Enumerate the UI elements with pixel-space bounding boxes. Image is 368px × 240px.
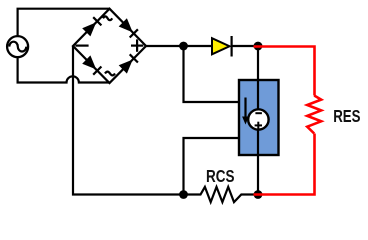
bridge rectifier diamond outline	[73, 9, 146, 83]
wire regulator bottom pin	[257, 154, 259, 195]
AC source V1	[7, 36, 28, 57]
wire inside U1 top	[257, 80, 259, 110]
wire negative rail: bridge minus down and along bottom	[73, 46, 184, 195]
wire diode cathode to node VOUT	[232, 45, 258, 47]
junction node C (RCS right / regulator bottom)	[254, 190, 263, 199]
bridge diode D2 (left to bottom)	[82, 55, 101, 74]
bridge "+" output label	[131, 39, 143, 51]
svg-text:RES: RES	[333, 106, 360, 126]
current source "+" mark	[255, 122, 262, 129]
junction node A (positive rail tap)	[179, 42, 188, 51]
bridge AC "~" label top	[103, 16, 112, 20]
wire top rail: AC source to bridge AC1 node	[18, 9, 110, 37]
bridge AC "~" label bottom	[105, 72, 115, 76]
svg-text:RCS: RCS	[206, 166, 235, 186]
resistor RES (red) with red load loop wiring	[254, 47, 315, 96]
regulator U1 body	[239, 80, 279, 155]
junction node VOUT (diode cathode / regulator top)	[254, 42, 263, 51]
wire bottom from AC source with hop over negative rail	[18, 57, 110, 83]
wire red return to node C	[254, 134, 315, 195]
bridge "-" output label	[75, 44, 88, 46]
wire regulator pin 2 to bottom rail	[184, 138, 241, 195]
wire inside U1 bottom	[257, 130, 259, 156]
current source "-" mark	[255, 112, 262, 114]
bridge diode D1 (left to top)	[82, 17, 101, 36]
junction node B (bottom rail / RCS left)	[179, 190, 188, 199]
resistor RCS	[184, 187, 255, 202]
wire positive rail: bridge plus to diode anode	[146, 45, 212, 47]
current source symbol inside U1	[248, 109, 268, 129]
wire node A down to regulator pin 1	[184, 46, 241, 102]
bridge diode D4 (bottom to right)	[119, 54, 138, 73]
wire regulator top pin	[257, 46, 259, 81]
diode D5	[212, 36, 232, 57]
bridge diode D3 (top to right)	[119, 18, 138, 37]
current direction arrow inside U1	[242, 98, 249, 125]
